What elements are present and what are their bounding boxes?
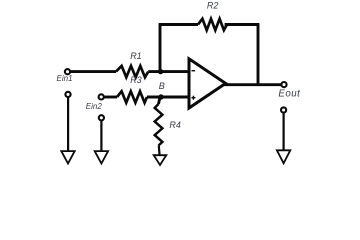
wire: R3 to op-amp non-inverting input (147, 96, 189, 99)
ground arrow below Ein2 (95, 151, 108, 163)
ground arrow below Eout (277, 150, 290, 163)
ground stick below Ein2 (100, 121, 102, 152)
resistor R3 (lower input) body (117, 91, 147, 102)
node junction dot (non-inverting line) (158, 94, 163, 99)
svg-text:R1: R1 (130, 51, 142, 61)
svg-text:R4: R4 (169, 120, 181, 130)
wire: feedback top left segment (159, 23, 198, 26)
wire: vertical up to feedback (159, 25, 162, 72)
ground stick below Eout (283, 113, 285, 151)
svg-text:Eout: Eout (278, 88, 301, 99)
node B junction dot (inverting line) (158, 69, 163, 74)
resistor R4 body (vertical) (155, 104, 163, 146)
wire: R1 to op-amp inverting input (148, 70, 189, 73)
wire: feedback top right segment (225, 23, 260, 26)
terminal Ein1 circle (65, 69, 70, 74)
svg-text:Ein2: Ein2 (86, 102, 103, 111)
op-amp plus sign (192, 96, 196, 100)
op-amp minus sign (192, 70, 196, 72)
resistor R1 (R3) body (116, 66, 148, 77)
op-amp U1 triangle (189, 59, 226, 108)
terminal Ein2 circle (99, 94, 104, 99)
wire: Ein2 to R3 left lead (104, 96, 117, 99)
ground terminal circle below Ein2 (99, 115, 104, 120)
ground arrow below Ein1 (61, 151, 74, 163)
resistor R2 body (198, 19, 227, 30)
wire: junction down to R4 (159, 97, 161, 104)
ground terminal circle below Ein1 (65, 92, 70, 97)
ground terminal circle below Eout (281, 107, 286, 112)
wire: Ein1 to R1 left lead (70, 70, 116, 73)
ground arrow below R4 (154, 155, 167, 165)
svg-text:B: B (159, 81, 165, 91)
svg-text:R2: R2 (207, 0, 219, 10)
terminal Eout circle (281, 82, 286, 87)
svg-text:R3: R3 (130, 75, 142, 85)
svg-text:Ein1: Ein1 (57, 74, 73, 83)
ground stick below Ein1 (67, 97, 69, 152)
wire: R4 to ground arrow (158, 146, 161, 156)
wire: vertical down to output (257, 25, 260, 85)
wire: op-amp output to Eout (224, 83, 281, 86)
